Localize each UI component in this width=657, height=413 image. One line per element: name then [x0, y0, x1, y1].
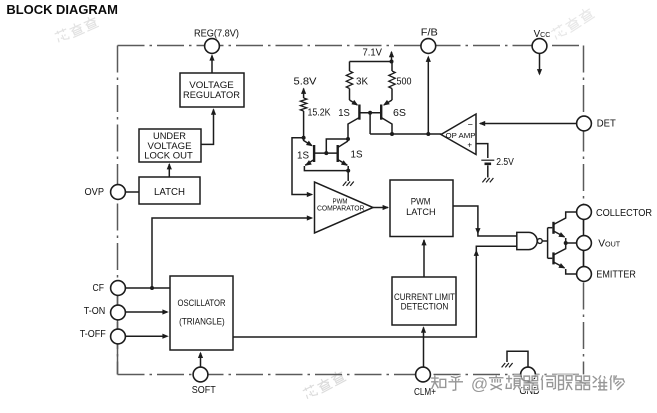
- svg-text:OSCILLATOR: OSCILLATOR: [178, 298, 226, 309]
- svg-text:T-OFF: T-OFF: [80, 329, 106, 340]
- svg-text:1S: 1S: [297, 149, 309, 161]
- svg-text:T-ON: T-ON: [84, 306, 106, 317]
- svg-text:DET: DET: [597, 119, 616, 130]
- svg-text:F/B: F/B: [421, 27, 438, 38]
- svg-text:−: −: [468, 120, 473, 130]
- svg-text:REG(7.8V): REG(7.8V): [194, 28, 239, 39]
- svg-text:COMPARATOR: COMPARATOR: [317, 206, 365, 213]
- svg-text:EMITTER: EMITTER: [596, 270, 636, 281]
- svg-text:PWM: PWM: [333, 198, 348, 205]
- svg-text:SOFT: SOFT: [192, 385, 216, 396]
- svg-text:CF: CF: [93, 283, 105, 294]
- svg-text:1S: 1S: [351, 148, 363, 160]
- svg-text:OP AMP: OP AMP: [446, 131, 476, 140]
- svg-text:7.1V: 7.1V: [363, 47, 383, 59]
- svg-text:3K: 3K: [356, 75, 368, 87]
- svg-text:LATCH: LATCH: [154, 186, 185, 198]
- svg-text:(TRIANGLE): (TRIANGLE): [179, 316, 225, 327]
- svg-text:LOCK OUT: LOCK OUT: [144, 150, 193, 161]
- svg-text:OVP: OVP: [85, 187, 105, 198]
- svg-text:+: +: [467, 141, 472, 150]
- svg-text:LATCH: LATCH: [406, 207, 435, 217]
- svg-text:5.8V: 5.8V: [294, 76, 317, 88]
- svg-text:VOUT: VOUT: [598, 239, 621, 250]
- svg-text:BLOCK DIAGRAM: BLOCK DIAGRAM: [6, 2, 118, 17]
- svg-text:@: @: [471, 375, 488, 394]
- svg-text:PWM: PWM: [411, 197, 431, 207]
- svg-text:2.5V: 2.5V: [496, 157, 514, 168]
- svg-text:6S: 6S: [393, 107, 406, 119]
- svg-text:REGULATOR: REGULATOR: [183, 90, 240, 101]
- svg-text:1S: 1S: [338, 107, 350, 119]
- svg-text:15.2K: 15.2K: [308, 108, 331, 119]
- svg-text:500: 500: [397, 75, 412, 87]
- svg-text:DETECTION: DETECTION: [401, 301, 449, 311]
- svg-text:COLLECTOR: COLLECTOR: [596, 208, 652, 219]
